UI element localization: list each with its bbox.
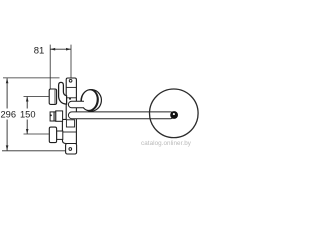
body inner line y=132 bbox=[62, 131, 76, 133]
extension line 296 top (y=77) bbox=[3, 77, 60, 79]
lower knob stem bbox=[57, 131, 63, 139]
extension line 296 bottom (y=150) bbox=[2, 150, 65, 152]
long spout arm bbox=[68, 112, 174, 119]
svg-text:296: 296 bbox=[1, 109, 17, 119]
extension line 150 bottom (y=133.2) bbox=[24, 133, 49, 135]
arm hub bbox=[170, 111, 178, 119]
svg-text:catalog.onliner.by: catalog.onliner.by bbox=[141, 140, 192, 147]
svg-text:150: 150 bbox=[20, 109, 36, 119]
lower knob bbox=[49, 127, 56, 143]
screw dot on block A bbox=[50, 114, 52, 116]
inner rect below arm bbox=[66, 120, 74, 127]
knob face ellipse bbox=[80, 89, 99, 112]
flange inner edge line bbox=[54, 90, 56, 104]
hole top plate bbox=[69, 79, 72, 82]
extension line left (x=50.4) bbox=[49, 45, 51, 89]
shower holder hook bbox=[59, 82, 67, 104]
extension line right (x=70.7) bbox=[70, 45, 72, 78]
body column bbox=[62, 78, 76, 144]
dimension 296 vertical line with arrows bbox=[6, 78, 9, 150]
knob head silhouette bbox=[80, 88, 103, 112]
shower head disc fill bbox=[150, 89, 199, 138]
hole bottom plate bbox=[69, 148, 72, 151]
body inner line y=97.8 bbox=[66, 97, 76, 99]
dimension 81 line with arrows bbox=[50, 48, 71, 51]
middle valve block C bbox=[56, 111, 63, 121]
extension line 150 top (y=96.6) bbox=[24, 96, 49, 98]
wall plate bottom bbox=[66, 144, 77, 155]
shower head disc outline bbox=[150, 89, 199, 138]
upper knob stem tube bbox=[68, 101, 84, 108]
middle valve block A bbox=[50, 112, 54, 121]
middle valve block B bbox=[54, 112, 56, 121]
plate step line y=87.4 bbox=[66, 86, 76, 88]
upper knob head group (tilted) bbox=[80, 88, 103, 112]
knob rim arc bbox=[89, 90, 99, 112]
hub highlight bbox=[173, 113, 175, 115]
screw dot on body top bbox=[69, 98, 71, 100]
left flange (upper escutcheon) bbox=[49, 89, 56, 104]
svg-text:81: 81 bbox=[34, 45, 45, 56]
dimension 150 vertical line with arrows bbox=[26, 97, 29, 135]
